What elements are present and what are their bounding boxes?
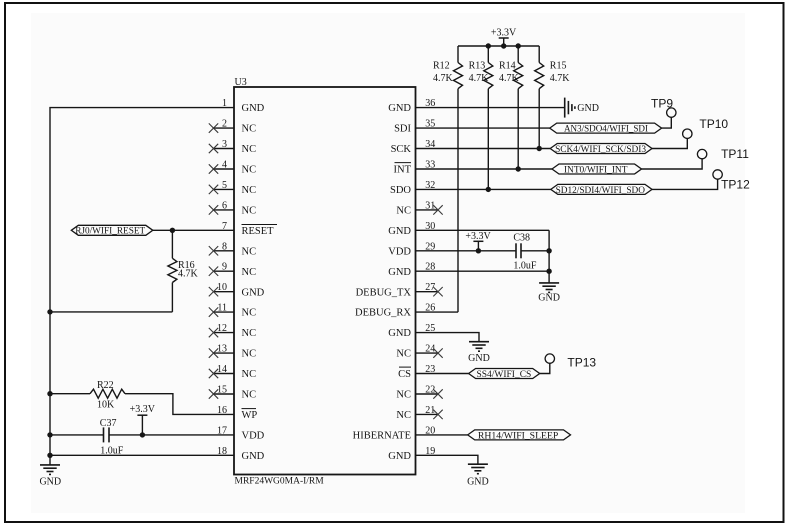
right no-connect X marks: [433, 205, 442, 419]
ground symbol at pin 25: [469, 342, 489, 352]
svg-text:NC: NC: [396, 349, 411, 360]
GND label at pin 25: [468, 353, 490, 364]
svg-text:NC: NC: [242, 369, 257, 380]
svg-text:AN3/SDO4/WIFI_SDI: AN3/SDO4/WIFI_SDI: [564, 124, 648, 135]
wire pin 33 INT to flag: [416, 168, 553, 170]
wire R22 to pin 16 WP: [125, 394, 234, 415]
svg-text:RJ0/WIFI_RESET: RJ0/WIFI_RESET: [75, 226, 145, 237]
wire pin 26 DEBUG_RX to R12: [416, 311, 459, 313]
svg-text:R22: R22: [97, 380, 114, 391]
test point TP10: [683, 117, 729, 139]
wire pin 34 SCK to flag: [416, 148, 551, 150]
resistor R22 10K: [50, 380, 125, 411]
wire CS flag to TP13: [540, 363, 550, 373]
test point TP13: [545, 354, 596, 370]
svg-text:NC: NC: [242, 267, 257, 278]
svg-text:GND: GND: [538, 292, 560, 303]
wire INT flag to TP11: [642, 159, 703, 169]
ground symbol below C38: [539, 283, 559, 293]
svg-text:4.7K: 4.7K: [550, 73, 571, 84]
IC right pin names: [353, 103, 412, 462]
svg-text:RESET: RESET: [242, 226, 275, 237]
svg-text:4.7K: 4.7K: [469, 73, 490, 84]
svg-text:NC: NC: [242, 206, 257, 217]
svg-text:NC: NC: [242, 308, 257, 319]
svg-text:4.7K: 4.7K: [433, 73, 454, 84]
right pin numbers: [425, 98, 435, 457]
svg-text:NC: NC: [242, 165, 257, 176]
IC left pin names: [242, 103, 275, 462]
svg-text:NC: NC: [242, 124, 257, 135]
svg-text:1.0uF: 1.0uF: [513, 260, 537, 271]
svg-text:NC: NC: [396, 206, 411, 217]
junction dot trunk/R16: [47, 309, 52, 314]
svg-text:HIBERNATE: HIBERNATE: [353, 431, 411, 442]
wire pin 32 SDO to flag: [416, 188, 551, 190]
wire pin 23 CS to flag: [416, 373, 469, 375]
svg-text:+3.3V: +3.3V: [491, 27, 517, 38]
wire SDI flag to TP9: [662, 117, 672, 128]
capacitor C38 1.0uF: [513, 233, 549, 272]
wire pin 20 HIBERNATE to flag: [416, 434, 468, 436]
svg-text:TP12: TP12: [721, 178, 750, 192]
svg-text:GND: GND: [242, 287, 265, 298]
svg-text:+3.3V: +3.3V: [130, 404, 156, 415]
svg-text:RH14/WIFI_SLEEP: RH14/WIFI_SLEEP: [478, 430, 558, 441]
svg-text:R13: R13: [469, 61, 486, 72]
svg-text:U3: U3: [235, 77, 247, 88]
IC pin 23 CS overline: [399, 366, 411, 368]
vertical wire C38 net to ground: [548, 230, 550, 283]
left no-connect X marks: [209, 123, 218, 398]
svg-text:NC: NC: [242, 185, 257, 196]
wire pin 19 GND: [416, 455, 478, 464]
svg-text:GND: GND: [468, 353, 490, 364]
svg-text:MRF24WG0MA-I/RM: MRF24WG0MA-I/RM: [235, 477, 325, 487]
IC U3 body: [234, 87, 416, 475]
power +3.3V at pin 17: [130, 404, 156, 435]
svg-text:4.7K: 4.7K: [178, 269, 199, 280]
svg-text:GND: GND: [388, 226, 411, 237]
resistor R13 4.7K: [469, 46, 493, 189]
wire pin 35 SDI to flag: [416, 127, 550, 129]
net flag SS4/WIFI_CS: [469, 369, 540, 381]
right NC pin stubs: [416, 210, 438, 415]
IC pin 7 RESET overline: [242, 224, 278, 226]
svg-text:NC: NC: [242, 328, 257, 339]
resistor R15 4.7K: [535, 46, 571, 149]
svg-text:NC: NC: [242, 349, 257, 360]
top +3.3V power symbol: [491, 27, 517, 46]
wire pin1 GND to left trunk: [50, 108, 234, 465]
wire RESET flag to pin 7: [153, 229, 234, 231]
net flag RH14/WIFI_SLEEP: [468, 430, 571, 442]
svg-text:CS: CS: [398, 369, 411, 380]
svg-text:NC: NC: [242, 246, 257, 257]
svg-text:4.7K: 4.7K: [499, 73, 520, 84]
left pin numbers: [217, 98, 227, 457]
resistor R16 4.7K: [168, 230, 199, 312]
resistor R14 4.7K: [499, 46, 523, 169]
svg-text:NC: NC: [242, 144, 257, 155]
junction dot R13/SDO: [486, 187, 491, 192]
wire R16 bottom to trunk: [50, 311, 172, 313]
wire SCK flag to TP10: [652, 138, 687, 148]
svg-text:NC: NC: [396, 410, 411, 421]
resistor R12 4.7K: [433, 46, 463, 312]
GND label left trunk: [39, 476, 61, 487]
svg-text:DEBUG_RX: DEBUG_RX: [355, 308, 411, 319]
wire pin 36 GND: [416, 107, 565, 109]
svg-text:SD12/SDI4/WIFI_SDO: SD12/SDI4/WIFI_SDO: [556, 185, 645, 196]
wire pin 29 VDD to C38: [416, 250, 517, 252]
left NC pin stubs: [213, 128, 234, 394]
junction dot +3.3V/pin29: [476, 248, 481, 253]
junction dot trunk/pin18: [47, 453, 52, 458]
svg-text:R14: R14: [499, 61, 516, 72]
svg-text:GND: GND: [388, 103, 411, 114]
svg-text:GND: GND: [388, 328, 411, 339]
svg-text:INT: INT: [394, 165, 412, 176]
svg-text:SCK: SCK: [391, 144, 412, 155]
junction dot RESET/R16: [170, 228, 175, 233]
net flag INT0/WIFI_INT: [552, 164, 642, 176]
svg-text:GND: GND: [467, 477, 489, 488]
test point TP12: [713, 170, 750, 192]
IC pin 33 INT overline: [395, 162, 412, 164]
svg-text:DEBUG_TX: DEBUG_TX: [356, 287, 412, 298]
svg-text:10K: 10K: [97, 400, 115, 411]
svg-text:VDD: VDD: [388, 246, 411, 257]
svg-text:GND: GND: [388, 451, 411, 462]
svg-text:R12: R12: [433, 61, 450, 72]
junction dot C38/ground wire: [546, 248, 551, 253]
svg-text:SCK4/WIFI_SCK/SDI3: SCK4/WIFI_SCK/SDI3: [555, 144, 646, 155]
svg-text:GND: GND: [39, 476, 61, 487]
svg-text:TP9: TP9: [651, 97, 673, 111]
junction dot +3.3V/pin17: [140, 432, 145, 437]
junction dot trunk/R22: [47, 391, 52, 396]
power +3.3V at pin 29: [465, 231, 491, 251]
junction dot pin28/ground wire: [546, 269, 551, 274]
svg-text:TP11: TP11: [721, 147, 749, 161]
capacitor C37 1.0uF: [50, 418, 234, 457]
svg-text:NC: NC: [396, 390, 411, 401]
svg-text:R15: R15: [550, 61, 567, 72]
net flag SCK4/WIFI_SCK/SDI3: [550, 144, 652, 156]
test point TP9: [651, 97, 676, 118]
svg-text:C38: C38: [513, 233, 530, 244]
junction dot R15/SCK: [537, 146, 542, 151]
ground symbol at pin 19: [468, 464, 488, 474]
IC U3 refdes label: [235, 77, 247, 88]
svg-text:C37: C37: [100, 418, 117, 429]
IC U3 part number label MRF24WG0MA-I/RM: [235, 477, 325, 487]
svg-text:GND: GND: [242, 103, 265, 114]
net flag SD12/SDI4/WIFI_SDO: [551, 184, 652, 196]
svg-text:SDO: SDO: [390, 185, 411, 196]
GND label at pin 36: [577, 103, 599, 114]
svg-text:GND: GND: [577, 103, 599, 114]
junction dot R14/INT: [516, 166, 521, 171]
svg-text:WP: WP: [242, 410, 258, 421]
svg-text:TP13: TP13: [567, 356, 596, 370]
svg-text:TP10: TP10: [699, 117, 728, 131]
wire pin 25 GND: [416, 333, 480, 342]
top bus wire: [458, 45, 539, 47]
GND label at pin 19: [467, 477, 489, 488]
ground symbol left trunk: [40, 465, 60, 475]
net flag AN3/SDO4/WIFI_SDI: [550, 123, 662, 135]
wire pin 28 GND: [416, 270, 550, 272]
wire SDO flag to TP12: [652, 179, 718, 189]
net flag RJ0/WIFI_RESET: [71, 225, 153, 236]
junction dots on top bus: [486, 43, 521, 48]
svg-text:VDD: VDD: [242, 431, 265, 442]
svg-text:GND: GND: [242, 451, 265, 462]
sideways ground symbol at pin 36: [565, 98, 575, 118]
svg-text:INT0/WIFI_INT: INT0/WIFI_INT: [564, 165, 628, 176]
svg-text:GND: GND: [388, 267, 411, 278]
GND label below C38: [538, 292, 560, 303]
svg-text:NC: NC: [242, 390, 257, 401]
wire pin 30 GND to C38 net: [416, 229, 550, 231]
IC pin 16 WP overline: [242, 408, 257, 410]
test point TP11: [697, 147, 749, 161]
svg-text:SS4/WIFI_CS: SS4/WIFI_CS: [477, 369, 532, 380]
svg-text:SDI: SDI: [394, 124, 411, 135]
wire pin 18 GND to trunk: [50, 454, 234, 456]
junction dot trunk/C37: [47, 432, 52, 437]
